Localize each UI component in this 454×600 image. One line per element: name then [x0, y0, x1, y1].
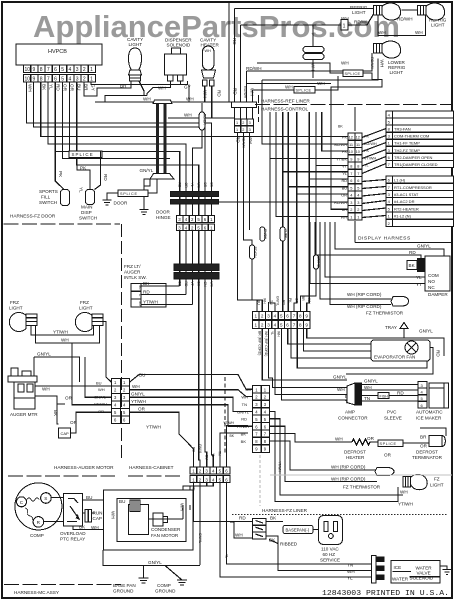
wire YT/WH label mid [146, 425, 161, 430]
svg-text:WH: WH [42, 387, 50, 392]
defrost heater circuit [270, 428, 446, 460]
cavity light label [127, 37, 143, 47]
wire GN/YL damper [335, 222, 444, 256]
svg-text:COM-THERM COM: COM-THERM COM [394, 134, 429, 139]
svg-text:BU: BU [86, 495, 92, 500]
connector P12 (control board plug) [348, 133, 362, 220]
svg-text:3: 3 [76, 77, 79, 83]
svg-text:WH (RIP CORD): WH (RIP CORD) [331, 465, 366, 470]
svg-text:6: 6 [357, 178, 359, 183]
svg-text:FILL: FILL [41, 195, 51, 200]
svg-text:3: 3 [267, 323, 270, 328]
svg-text:YL: YL [190, 183, 194, 187]
compressor COMP [15, 483, 62, 538]
svg-text:SWITCH: SWITCH [39, 200, 57, 205]
wire WH auger [35, 386, 112, 392]
svg-text:WATER: WATER [392, 577, 409, 582]
wire PK row3 [322, 112, 348, 151]
HVPCB pin row 2 [24, 75, 96, 83]
svg-text:WH: WH [61, 338, 69, 343]
harness-cabinet label [128, 465, 182, 476]
svg-text:LIGHT: LIGHT [431, 23, 445, 28]
svg-text:HEATER: HEATER [346, 455, 365, 460]
svg-text:GN/YL: GN/YL [198, 444, 202, 454]
wire YL pin7 [48, 82, 186, 192]
wire BR pin2 [84, 82, 119, 96]
auger motor [8, 368, 38, 417]
svg-text:WH: WH [311, 63, 316, 71]
svg-text:YL: YL [416, 275, 422, 280]
svg-text:SLEEVE: SLEEVE [384, 416, 402, 421]
svg-text:BR: BR [301, 296, 305, 301]
condenser fan motor [111, 499, 191, 538]
refrig light bulb 2 [418, 3, 445, 20]
bottom cabinet connector P6B row2 [190, 476, 230, 483]
svg-text:RT1-COMPRESSOR: RT1-COMPRESSOR [394, 185, 432, 190]
svg-text:HARNESS-CONTROL: HARNESS-CONTROL [261, 107, 309, 112]
svg-text:#1-L2 (N): #1-L2 (N) [394, 214, 412, 219]
svg-text:BK: BK [42, 84, 47, 91]
svg-text:TR2-DAMPER OPEN: TR2-DAMPER OPEN [394, 155, 433, 160]
FZ light [270, 411, 444, 506]
svg-text:1: 1 [90, 67, 93, 73]
svg-text:WH: WH [335, 437, 343, 442]
door hinge wires to connector [180, 204, 212, 216]
svg-text:6: 6 [286, 314, 289, 319]
svg-text:BR: BR [120, 84, 127, 89]
HVPCB pin row 1 [24, 65, 96, 73]
part number text [322, 590, 449, 598]
svg-text:7: 7 [293, 314, 296, 319]
svg-text:4: 4 [274, 323, 277, 328]
svg-text:FZ THERMISTOR: FZ THERMISTOR [366, 311, 404, 316]
svg-text:RD: RD [143, 290, 150, 295]
svg-text:YL/BK: YL/BK [283, 229, 287, 239]
wire YT/WH liner [278, 461, 282, 472]
lower refrig light bulb [374, 41, 401, 58]
harness-fz liner label [232, 508, 448, 515]
svg-text:RIBBED: RIBBED [280, 542, 298, 547]
cabinet connector P9C [253, 386, 270, 453]
svg-text:RD: RD [436, 350, 441, 357]
svg-text:6: 6 [54, 67, 57, 73]
svg-text:WH (RIP CORD): WH (RIP CORD) [347, 304, 382, 309]
svg-text:BK: BK [229, 434, 234, 438]
P12 wire labels left [334, 136, 348, 220]
svg-text:WH: WH [248, 136, 253, 144]
interlock switch wires [141, 281, 192, 305]
svg-text:CONDENSER: CONDENSER [151, 527, 181, 532]
wire PK row1 from HVPCB pin8 [315, 136, 348, 138]
svg-text:PTC RELAY: PTC RELAY [60, 537, 85, 542]
svg-text:YL: YL [270, 331, 274, 335]
run capacitor CAP [59, 412, 112, 438]
fz door cable wrap bar 3 [174, 264, 219, 271]
svg-text:BK: BK [79, 525, 86, 530]
svg-text:HVPCB: HVPCB [48, 49, 67, 55]
svg-text:3: 3 [267, 314, 270, 319]
svg-text:ICE MAKER: ICE MAKER [416, 416, 442, 421]
svg-text:L1 (H): L1 (H) [394, 178, 406, 183]
wire GN/YL door ground [140, 168, 156, 210]
svg-text:WH (RIP CORD): WH (RIP CORD) [331, 477, 366, 482]
svg-text:4: 4 [274, 314, 277, 319]
wire tag YL/BK [280, 227, 287, 241]
svg-text:RD/WH: RD/WH [370, 57, 374, 70]
condenser fan inner box [117, 499, 186, 542]
cavity light leads [105, 81, 171, 102]
wire YT/WH frz lights [31, 326, 94, 336]
harness-mc assy label [4, 585, 121, 596]
P6 wire labels [94, 381, 107, 415]
HVPCB board [16, 44, 102, 65]
harness boundary dash box cabinet [224, 377, 226, 455]
svg-text:INTLK SW.: INTLK SW. [124, 275, 147, 280]
frz light 1 [9, 313, 37, 332]
svg-text:OR: OR [70, 84, 75, 92]
wire OR BK auger cap [35, 396, 78, 426]
wire OR pin4 [70, 82, 103, 155]
svg-text:TN: TN [269, 300, 273, 305]
frz light 2 label [79, 300, 93, 311]
wire WH main run y102 [95, 97, 232, 103]
P6 to cabinet connector wires [130, 373, 253, 450]
svg-text:DAMPER: DAMPER [428, 292, 448, 297]
svg-text:SPLICE: SPLICE [296, 89, 312, 93]
svg-text:RD: RD [241, 417, 247, 422]
svg-text:LIGHT: LIGHT [129, 42, 143, 47]
wire YT/BK row4 [270, 112, 348, 312]
svg-text:OR: OR [63, 84, 68, 92]
wire GY pin1 [91, 81, 187, 85]
svg-text:YL: YL [224, 554, 228, 558]
svg-text:60 HZ: 60 HZ [323, 552, 336, 557]
svg-text:2: 2 [83, 77, 86, 83]
P9 rip cord labels below [258, 331, 281, 356]
terminal strip [253, 519, 267, 540]
P12 wire labels right [364, 135, 377, 168]
svg-text:CONNECTOR: CONNECTOR [338, 416, 368, 421]
svg-text:RT2-HEATER: RT2-HEATER [394, 206, 419, 211]
main disp switch [77, 152, 108, 205]
svg-text:LIGHT: LIGHT [390, 70, 404, 75]
svg-text:10: 10 [25, 77, 31, 83]
sports fill switch [55, 152, 69, 206]
svg-text:GN/YL: GN/YL [364, 379, 378, 384]
svg-text:BK: BK [241, 439, 247, 444]
svg-text:HINGE: HINGE [156, 215, 171, 220]
svg-text:RD/BK: RD/BK [203, 114, 207, 126]
svg-text:7: 7 [47, 77, 50, 83]
svg-text:GROUND: GROUND [113, 589, 134, 594]
svg-text:RD: RD [217, 90, 222, 97]
svg-text:TH2-FZ TEMP: TH2-FZ TEMP [394, 148, 420, 153]
svg-text:TN: TN [242, 402, 247, 407]
svg-text:EVAPORATOR FAN: EVAPORATOR FAN [374, 355, 415, 360]
svg-text:YT: YT [416, 282, 422, 287]
wire RD/WH with tag 1 [241, 14, 374, 30]
svg-text:GN/YL: GN/YL [237, 409, 250, 414]
svg-text:BK: BK [143, 281, 150, 286]
svg-text:LIGHT: LIGHT [9, 306, 23, 311]
svg-text:1: 1 [236, 128, 238, 132]
svg-text:9: 9 [33, 67, 36, 73]
svg-text:AUGER MTR: AUGER MTR [10, 412, 38, 417]
svg-text:LIGHT: LIGHT [430, 483, 444, 488]
svg-text:5: 5 [357, 185, 359, 190]
svg-text:RD: RD [235, 136, 240, 143]
svg-text:LIGHT: LIGHT [79, 306, 93, 311]
splice S3 [253, 76, 339, 102]
wire BU row8 [288, 112, 348, 312]
svg-text:DOOR: DOOR [156, 210, 170, 215]
svg-text:RD: RD [342, 179, 348, 183]
wire BU/WH row2 [262, 140, 348, 144]
svg-text:WH: WH [197, 183, 201, 189]
frz lt auger intlk switch label [124, 264, 147, 280]
wire OR pin5 [62, 82, 170, 158]
svg-text:110 VAC: 110 VAC [321, 547, 339, 552]
wire bulb1 to bulb2 [378, 15, 426, 36]
svg-text:BR: BR [203, 183, 207, 188]
door hinge label [156, 210, 171, 221]
door hinge connector row 2 [177, 224, 215, 231]
svg-text:3: 3 [249, 121, 251, 125]
svg-text:WH: WH [400, 490, 408, 495]
svg-text:4: 4 [69, 67, 72, 73]
defrost terminator [412, 436, 445, 461]
svg-text:SPLICE: SPLICE [72, 152, 94, 157]
svg-text:WH: WH [203, 90, 208, 98]
amp to ice maker wires [362, 379, 418, 421]
svg-text:BASE PAN: BASE PAN [113, 583, 136, 588]
svg-text:RD: RD [233, 88, 238, 95]
svg-text:YL: YL [342, 172, 347, 176]
svg-text:#3-AC1 STAT: #3-AC1 STAT [394, 192, 419, 197]
svg-text:6: 6 [350, 178, 352, 183]
svg-text:TR1(DAMPER CLOSED: TR1(DAMPER CLOSED [394, 162, 438, 167]
strip to plug wires [266, 516, 366, 571]
svg-text:12: 12 [356, 135, 360, 140]
svg-text:RD/WH: RD/WH [243, 86, 247, 99]
svg-text:1: 1 [357, 214, 359, 219]
splice S2 [257, 61, 382, 113]
svg-text:1: 1 [343, 24, 346, 30]
svg-text:WH: WH [415, 30, 423, 35]
svg-text:1: 1 [236, 121, 238, 125]
svg-text:WH: WH [91, 525, 99, 530]
refrig light label 2 [429, 18, 447, 28]
wire tag BN/RD [314, 255, 321, 269]
svg-text:2: 2 [357, 207, 359, 212]
door hinge connector row 1 [177, 216, 215, 223]
svg-text:3: 3 [357, 200, 359, 205]
svg-text:5: 5 [61, 67, 64, 73]
svg-text:RD: RD [56, 84, 61, 91]
svg-text:RD: RD [397, 391, 404, 396]
fuse F1 [192, 103, 206, 192]
evaporator fan [371, 340, 430, 361]
svg-text:YT/WH: YT/WH [131, 399, 146, 404]
cavity heater [202, 46, 216, 86]
svg-text:BU: BU [119, 499, 125, 504]
svg-text:WH: WH [277, 331, 281, 337]
wire tag GN/BK [260, 227, 267, 241]
svg-text:OR: OR [138, 407, 146, 412]
connector 2x3 J2 [235, 108, 254, 133]
watermark AppliancePartsPros.com [33, 9, 400, 44]
svg-text:OR: OR [384, 453, 392, 458]
svg-text:RUN: RUN [93, 511, 103, 516]
P6B feed wires above [186, 441, 222, 467]
damper assembly [407, 256, 450, 297]
svg-text:1: 1 [90, 77, 93, 83]
wire VT row5 [301, 112, 349, 312]
svg-text:7: 7 [357, 171, 359, 176]
svg-text:WH: WH [180, 503, 185, 511]
svg-text:BK: BK [409, 263, 416, 268]
svg-text:BU: BU [139, 373, 145, 378]
svg-text:SPLICE: SPLICE [345, 72, 361, 76]
svg-text:WH (RIP CORD): WH (RIP CORD) [347, 292, 382, 297]
svg-text:RD/WH: RD/WH [246, 66, 262, 71]
wire RD row7 [307, 112, 348, 312]
svg-text:BK: BK [53, 410, 58, 417]
svg-text:DISPLAY HARNESS: DISPLAY HARNESS [358, 236, 411, 242]
frz light 1 label [9, 300, 23, 311]
svg-text:RD/GN: RD/GN [253, 247, 257, 258]
svg-text:CAP: CAP [61, 431, 70, 436]
svg-text:COM: COM [428, 273, 439, 278]
faint harness boundary dashes [260, 445, 452, 506]
wire GN/YL P6 [85, 357, 112, 397]
FZ thermistor rip cords [270, 426, 377, 481]
svg-text:HARNESS-FZ LINER: HARNESS-FZ LINER [262, 508, 308, 513]
svg-text:YL: YL [211, 453, 215, 457]
svg-text:PK: PK [58, 171, 63, 178]
amp connector [338, 383, 368, 421]
svg-text:2: 2 [83, 67, 86, 73]
svg-text:TN: TN [364, 396, 370, 401]
svg-text:OR: OR [294, 298, 298, 304]
control table 1 [386, 111, 454, 168]
svg-text:WH: WH [380, 60, 385, 68]
svg-text:WH: WH [235, 533, 243, 538]
svg-text:9: 9 [33, 77, 36, 83]
svg-text:WH: WH [364, 385, 372, 390]
water valve ground [440, 566, 452, 575]
wire YT damper [310, 222, 425, 287]
harness-fz door label [4, 214, 121, 225]
sports fill switch label [39, 189, 58, 205]
svg-text:3: 3 [76, 67, 79, 73]
svg-text:4: 4 [69, 77, 72, 83]
svg-text:12: 12 [349, 135, 353, 140]
wire liner extra 3 [304, 328, 371, 351]
fz door wire color tags [178, 282, 214, 288]
wire tag RD/GN [250, 245, 257, 259]
power plug 110VAC [319, 516, 343, 563]
svg-text:FZ: FZ [434, 477, 440, 482]
lower refrig light label [388, 60, 406, 75]
svg-text:OR: OR [184, 183, 188, 189]
svg-text:GN/YL: GN/YL [198, 533, 202, 543]
splice S1 [69, 151, 102, 158]
wire YT/WH P6 [72, 343, 112, 405]
evaporator fan wires [269, 302, 441, 374]
svg-text:BU: BU [256, 300, 260, 305]
svg-text:GN/BK: GN/BK [263, 229, 267, 240]
svg-text:1: 1 [350, 214, 352, 219]
svg-text:WH: WH [143, 97, 151, 102]
cavity heater label [200, 38, 219, 48]
wire YL row6 [283, 112, 348, 312]
overload PTC relay [60, 494, 86, 542]
svg-text:TH1-FF TEMP: TH1-FF TEMP [394, 141, 420, 146]
svg-text:YT/WH: YT/WH [398, 502, 413, 507]
svg-text:9: 9 [305, 323, 308, 328]
svg-text:WH: WH [317, 81, 325, 86]
wire RD/WH row10 [196, 201, 348, 203]
P9C left side exit wires [220, 421, 248, 467]
svg-text:OR: OR [98, 409, 104, 414]
svg-text:GN/YL: GN/YL [275, 296, 279, 306]
svg-text:8: 8 [357, 164, 359, 169]
svg-text:BU: BU [245, 387, 251, 392]
P12 to table diagonal wires [362, 129, 386, 218]
svg-text:FISH: FISH [380, 394, 389, 398]
svg-text:YL: YL [347, 576, 353, 581]
run capacitor [83, 509, 103, 521]
svg-text:11: 11 [349, 142, 353, 147]
svg-text:2: 2 [350, 207, 352, 212]
svg-text:GROUND: GROUND [155, 589, 176, 594]
svg-text:DISP: DISP [81, 210, 92, 215]
svg-text:TERMINATOR: TERMINATOR [412, 455, 443, 460]
svg-text:SPLICE: SPLICE [380, 442, 397, 446]
svg-text:YT/WH: YT/WH [143, 300, 158, 305]
FZ thermistor (liner) [343, 468, 394, 490]
svg-text:NO: NO [428, 279, 435, 284]
svg-text:PK: PK [288, 298, 292, 303]
svg-text:FRZ: FRZ [80, 300, 89, 305]
svg-text:GN/YL: GN/YL [419, 329, 433, 334]
wire WH to strip [230, 522, 253, 538]
svg-text:BR (RIP CORD): BR (RIP CORD) [258, 331, 262, 355]
svg-text:WH: WH [186, 97, 194, 102]
svg-text:5: 5 [350, 185, 352, 190]
svg-text:RD/WH: RD/WH [397, 17, 413, 22]
svg-text:BU: BU [96, 381, 102, 386]
svg-text:YT/WH: YT/WH [223, 421, 234, 425]
svg-text:BK: BK [209, 183, 213, 188]
P9C wire labels [236, 387, 251, 444]
svg-text:RD: RD [103, 174, 108, 181]
dispenser solenoid label [165, 38, 192, 48]
ground door hinge [140, 210, 149, 215]
svg-text:LIGHT: LIGHT [352, 10, 366, 15]
svg-text:3: 3 [350, 200, 352, 205]
svg-text:TN: TN [218, 451, 222, 456]
svg-text:CAP: CAP [93, 516, 102, 521]
svg-text:YT/WH: YT/WH [236, 424, 249, 429]
svg-text:7: 7 [350, 171, 352, 176]
svg-text:GN/YL: GN/YL [148, 560, 162, 565]
automatic ice maker [416, 383, 449, 421]
svg-text:DEFROST: DEFROST [416, 450, 438, 455]
wire BK tag [338, 125, 343, 129]
svg-text:WH: WH [347, 569, 355, 574]
